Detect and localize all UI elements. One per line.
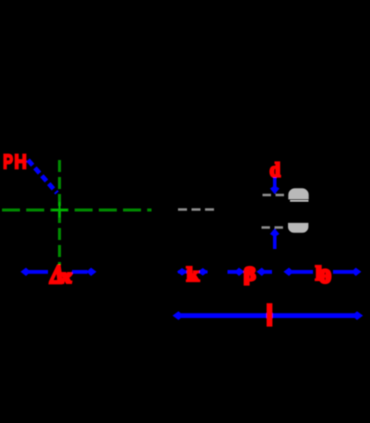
source plane vertical (green dashed) bbox=[58, 160, 61, 265]
wire dimension D double arrow bbox=[284, 268, 362, 276]
node bottom aperture dashed line bbox=[262, 226, 285, 228]
wire d dimension arrow bottom (blue, points up) bbox=[270, 228, 279, 249]
wire leader from PH to source (blue dashed arrow) bbox=[28, 160, 57, 193]
svg-text:H: H bbox=[14, 150, 26, 173]
detector top base line bbox=[290, 200, 309, 202]
node source point cross bbox=[52, 202, 68, 218]
wire dimension A double arrow bbox=[21, 268, 97, 276]
svg-text:k: k bbox=[187, 265, 200, 286]
wire dimension B double arrow bbox=[177, 268, 208, 276]
wire axis break dashes (gray) bbox=[178, 208, 215, 210]
svg-text:θ: θ bbox=[319, 267, 331, 288]
detector bottom (gray, flat top rounded bottom) bbox=[288, 223, 308, 233]
node top aperture dashed line bbox=[263, 194, 286, 196]
detector top (gray dome, flat bottom) bbox=[288, 188, 308, 199]
label l (overall length) bbox=[267, 303, 273, 326]
source axis horizontal (green dashed) bbox=[2, 209, 152, 212]
svg-text:x: x bbox=[59, 267, 72, 288]
wire overall length double arrow (blue) bbox=[173, 311, 364, 320]
svg-text:P: P bbox=[3, 150, 13, 173]
svg-text:β: β bbox=[244, 264, 256, 285]
wire d dimension arrow top (blue, points down) bbox=[270, 178, 279, 195]
wire dimension C arrows (inward) bbox=[228, 268, 273, 276]
